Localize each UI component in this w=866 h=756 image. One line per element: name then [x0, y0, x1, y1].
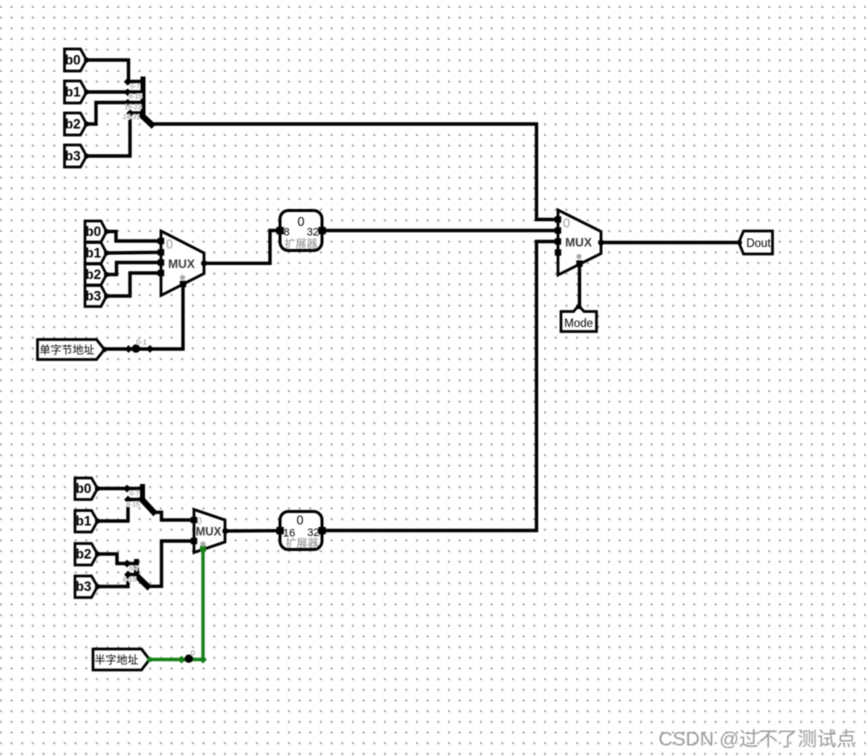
wire C: expander U2 output to MUX3 input3 — [322, 242, 558, 531]
svg-text:0-7: 0-7 — [130, 491, 140, 498]
svg-text:16-23: 16-23 — [124, 104, 142, 111]
svg-text:b0: b0 — [85, 224, 101, 239]
svg-text:半字地址: 半字地址 — [95, 653, 139, 667]
wire MUX2 output to expander U1 — [204, 231, 280, 264]
wire B: expander U1 output to MUX3 input2 — [322, 229, 558, 232]
svg-text:单字节地址: 单字节地址 — [40, 343, 95, 357]
svg-text:扩展器: 扩展器 — [285, 237, 318, 251]
svg-text:8-15: 8-15 — [126, 502, 140, 509]
svg-text:MUX: MUX — [168, 257, 195, 271]
svg-text:b0: b0 — [76, 481, 92, 496]
splitter SP-B on green wire (bit 0) — [185, 649, 195, 663]
wire SP3 output to MUX4 input2 — [148, 541, 195, 586]
svg-text:b2: b2 — [65, 117, 81, 132]
wire A: splitter SP1 output to MUX3 input1 — [152, 124, 559, 220]
pin b0 (bottom) — [75, 478, 100, 500]
svg-text:b3: b3 — [65, 149, 81, 164]
svg-text:0: 0 — [298, 215, 305, 229]
wire b0 to splitter — [87, 60, 129, 82]
svg-text:32: 32 — [307, 227, 319, 239]
pin 半字地址 — [93, 649, 152, 670]
svg-text:8-15: 8-15 — [123, 577, 137, 584]
svg-text:0: 0 — [563, 217, 570, 231]
mux MUX4 — [191, 510, 229, 553]
wire b1 to splitter — [87, 90, 128, 93]
wire b3 to splitter SP3 — [98, 575, 129, 587]
expander U2 (16 to 32) — [276, 512, 325, 551]
svg-text:MUX: MUX — [196, 527, 222, 539]
svg-text:b1: b1 — [85, 246, 101, 261]
green junction diamonds — [178, 656, 186, 664]
svg-text:Dout: Dout — [746, 238, 771, 250]
splitter SP-A on select wire (0-1) — [125, 338, 154, 353]
wire b1 to splitter SP2 — [98, 500, 129, 522]
svg-text:0-7: 0-7 — [130, 84, 140, 91]
pin 单字节地址 — [38, 340, 108, 360]
pin b1 (middle) — [85, 243, 109, 264]
wire MUX3 select to Mode — [578, 264, 581, 306]
svg-text:8: 8 — [284, 227, 290, 239]
wire b0 to MUX2 in0 — [107, 232, 162, 242]
svg-text:0: 0 — [297, 514, 304, 528]
svg-text:24-31: 24-31 — [123, 114, 141, 121]
svg-text:0-1: 0-1 — [136, 338, 147, 347]
pin b0 (middle) — [85, 221, 109, 242]
svg-text:扩展器: 扩展器 — [286, 536, 319, 550]
wire MUX2 select — [105, 284, 184, 349]
splitter SP2 (2x8 combine to 16) — [123, 485, 153, 512]
wire b2 to MUX2 in2 — [107, 263, 162, 275]
wire SP2 output to MUX4 input1 — [154, 512, 195, 520]
wire b1 to MUX2 in1 — [107, 251, 162, 255]
mux MUX2 — [158, 231, 207, 296]
splitter SP1 bit labels — [123, 84, 143, 122]
pin b2 (bottom) — [75, 544, 100, 566]
svg-text:0-7: 0-7 — [129, 566, 139, 573]
svg-text:Mode: Mode — [564, 318, 593, 330]
splitter SP3 (2x8 combine to 16) — [123, 560, 147, 587]
svg-text:b2: b2 — [76, 547, 92, 562]
pin b1 (top) — [65, 81, 90, 103]
svg-text:0: 0 — [191, 649, 195, 658]
pin b2 (middle) — [85, 264, 109, 285]
svg-text:8-15: 8-15 — [129, 94, 143, 101]
pin Mode — [561, 304, 597, 332]
svg-text:0: 0 — [166, 238, 173, 252]
svg-text:b1: b1 — [65, 85, 81, 100]
pin b3 (bottom) — [75, 576, 100, 598]
wire MUX4 output to expander U2 — [225, 529, 280, 533]
wire b2 to splitter SP3 — [98, 554, 128, 564]
pin b2 (top) — [65, 113, 90, 135]
wire b3 to splitter — [87, 113, 131, 156]
pin b3 (middle) — [85, 286, 109, 307]
svg-text:b2: b2 — [85, 267, 101, 282]
svg-text:0: 0 — [197, 516, 202, 526]
svg-text:CSDN @过不了测试点: CSDN @过不了测试点 — [659, 729, 856, 751]
expander U1 (8 to 32) — [276, 211, 325, 251]
splitter SP2 bit labels — [126, 491, 140, 509]
svg-text:b1: b1 — [76, 514, 92, 529]
pin b3 (top) — [65, 145, 90, 167]
pin b0 (top) — [65, 49, 90, 71]
svg-text:MUX: MUX — [565, 236, 592, 250]
svg-text:b0: b0 — [65, 53, 81, 68]
green select wire from 半字地址 to MUX4 — [150, 549, 204, 660]
svg-text:b3: b3 — [76, 579, 92, 594]
wire b2 to splitter — [87, 103, 128, 125]
splitter SP3 bit labels — [123, 566, 139, 584]
wire b0 to splitter SP2 — [98, 487, 128, 490]
pin b1 (bottom) — [75, 511, 100, 533]
pin Dout (output) — [737, 231, 773, 254]
wire b3 to MUX2 in3 — [107, 273, 162, 296]
svg-text:b3: b3 — [85, 289, 101, 304]
mux MUX3 — [555, 210, 604, 275]
wire MUX3 output to Dout — [601, 241, 739, 244]
splitter SP1 (4x8 combine to 32) — [124, 78, 152, 125]
